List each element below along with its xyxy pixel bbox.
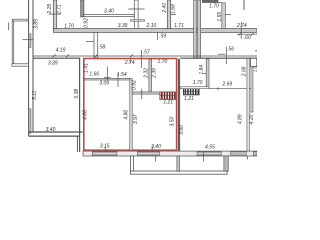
svg-text:3.90: 3.90 [179,125,185,135]
grey band piece W6 [231,152,247,156]
svg-text:3.97: 3.97 [133,114,139,124]
neighbor wall line right of red [178,59,180,151]
svg-text:4.86: 4.86 [124,110,130,120]
wall vertical x134-138 top [134,0,138,29]
party wall top-left vertical [53,0,56,29]
svg-text:4.20: 4.20 [249,115,255,125]
dim .57 with tick [141,50,143,68]
shaft B midline [184,90,200,92]
tick below bottom wall right [203,151,205,162]
svg-text:3.40: 3.40 [104,8,114,14]
balcony top-left top wall [12,19,27,21]
left room bottom wall bottom line [29,135,80,137]
wall horizontal y15 [84,15,134,17]
tick across party wall [49,13,62,15]
grey band y20 [130,20,145,22]
left room bottom wall top line [29,131,83,133]
dim tick below 2.74 [129,59,131,63]
svg-text:2.32: 2.32 [144,68,150,79]
top line to x222 [202,2,222,4]
dim cross tick on wall [104,76,111,78]
right wall B [251,67,253,112]
svg-text:2.28: 2.28 [47,4,53,15]
svg-text:.59: .59 [159,34,166,40]
corridor south wall black left part [33,57,80,59]
svg-text:4.88: 4.88 [82,110,88,120]
svg-text:2.69: 2.69 [221,82,232,88]
svg-text:1.68: 1.68 [171,4,177,14]
interior wall vertical x149 [149,59,152,92]
svg-text:.56: .56 [227,47,234,53]
window W4 bottom [137,152,159,156]
grey band piece right end [253,152,257,156]
svg-text:3.39: 3.39 [118,23,128,29]
wall vertical x81-84 top [81,0,84,17]
svg-text:.58: .58 [98,44,105,50]
svg-text:3.50: 3.50 [170,117,176,127]
svg-text:3.39: 3.39 [48,60,58,66]
window midlines [93,153,221,155]
svg-text:1.66: 1.66 [89,71,99,77]
corridor dimension line [33,55,257,57]
svg-text:3.40: 3.40 [151,144,161,150]
dim extension line x241 [240,22,242,39]
svg-text:2.71: 2.71 [56,4,62,15]
svg-text:.57: .57 [143,50,150,56]
dim tick vertical x107 [106,67,108,80]
svg-text:1.21: 1.21 [184,96,194,102]
top edge wall band right [202,0,218,2]
tick left of right room wall [203,73,206,75]
balcony bottom wall [12,64,29,66]
right room right wall [206,59,209,88]
RED apartment outline [84,59,177,151]
balcony outer rail [8,23,10,31]
window W3 bottom [92,152,117,156]
step wall second line [76,136,78,152]
interior wall vertical x130 [130,78,132,150]
tick top far right [243,0,245,10]
neighbor wall line left of red [79,59,81,153]
svg-text:4.19: 4.19 [56,47,66,53]
svg-text:0.92: 0.92 [83,18,89,28]
balcony right wall inner [224,156,225,171]
balcony bottom bottom wall [131,171,228,174]
dim tick vertical x118 [117,73,119,87]
svg-text:1.70: 1.70 [158,59,168,65]
svg-text:0.92: 0.92 [131,80,137,90]
dim .56 with dim line [218,53,225,55]
dim tick x152 [151,146,153,151]
svg-text:3.89: 3.89 [33,19,39,29]
corridor south wall black right part [180,57,257,59]
shaft B (black hatched) [184,88,200,95]
svg-text:3.09: 3.09 [99,81,109,87]
shaft A (red hatched) [160,92,176,99]
tick below band at wall A [246,156,248,159]
svg-text:2.40: 2.40 [162,3,168,14]
main structural wall band [53,29,257,33]
svg-text:.60: .60 [244,35,251,41]
window W5 bottom [197,152,221,156]
wall stub below main wall [94,32,98,57]
right wall A [247,58,249,151]
svg-text:1.8: 1.8 [252,66,257,72]
balcony divider wall [177,156,180,171]
svg-text:1.71: 1.71 [174,23,184,29]
dim tick x105 [104,146,106,151]
wall vertical x167-171 top [167,0,170,29]
exterior wall left inner line [32,0,34,132]
balcony top-left left wall [12,21,14,64]
tick on dim line x239.8 [239,33,242,36]
interior wall horizontal y92 [132,92,160,94]
svg-text:1.70: 1.70 [193,80,203,86]
corridor dim ticks [53,54,134,57]
svg-text:3.15: 3.15 [100,144,110,150]
svg-text:1.84: 1.84 [199,65,205,75]
party double wall x194-201 top [194,0,197,58]
tick far right y51 [255,50,257,52]
dim .59 with tick [156,32,158,40]
balcony right wall outer [227,156,228,171]
svg-text:5.08: 5.08 [74,89,80,99]
wall vertical x222-225 top [222,3,226,29]
svg-text:1.70: 1.70 [209,3,219,9]
bottom exterior wall band [83,151,257,156]
svg-text:1.54: 1.54 [117,72,127,78]
shaft A midline [160,95,176,97]
tick at stub [86,40,94,42]
tick right of wall x225 [225,14,231,16]
tick at window W1 [23,39,34,41]
svg-text:2.74: 2.74 [124,60,135,66]
right room bottom wall [180,87,209,89]
dim tick vertical x141.8 lower [141,89,143,100]
svg-text:1.95: 1.95 [217,12,223,22]
tick right of wall x171 [171,14,176,16]
svg-text:4.89: 4.89 [238,114,244,124]
window W1 in left wall [29,34,31,48]
svg-text:5.11: 5.11 [32,90,38,100]
tick on dim line x252.2 [251,33,254,36]
svg-text:2.08: 2.08 [241,66,247,77]
balcony bottom left wall [131,156,134,171]
tick crossing y9 [128,8,144,10]
window W2 in left wall [29,109,31,134]
small box top right [250,58,256,66]
svg-text:2.10: 2.10 [146,23,157,29]
exterior wall left outer line [28,0,30,136]
tick on dim line x218 [217,87,219,90]
svg-text:2.39: 2.39 [151,68,157,79]
svg-text:1.21: 1.21 [163,100,173,106]
dim line .60 [237,33,257,35]
dim line right apartment [209,88,253,90]
svg-text:4.55: 4.55 [205,145,215,151]
interior wall horizontal y79 [84,78,130,80]
tick below bottom wall [155,156,157,162]
